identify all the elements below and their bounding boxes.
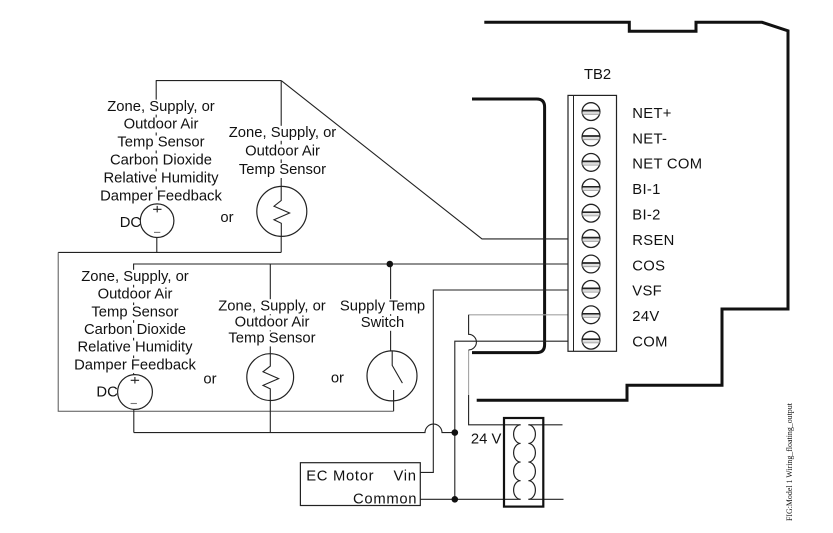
terminal screw 5: [582, 204, 600, 222]
wire: transformer secondary bottom: [528, 498, 563, 500]
terminal screw 9: [582, 306, 600, 324]
terminal screw 7: [582, 255, 600, 273]
svg-text:Damper Feedback: Damper Feedback: [100, 189, 222, 205]
wire: transformer secondary top: [528, 424, 562, 426]
thermistor RT1: [257, 186, 307, 236]
supply temp switch S1: [367, 351, 417, 401]
terminal screw 3: [582, 154, 600, 172]
svg-text:BI-2: BI-2: [632, 208, 660, 224]
terminal labels: [632, 106, 702, 351]
svg-text:TB2: TB2: [584, 67, 611, 83]
DC source V1: [140, 204, 174, 238]
terminal screws: [582, 103, 600, 349]
svg-text:Carbon Dioxide: Carbon Dioxide: [110, 153, 212, 169]
svg-text:Damper Feedback: Damper Feedback: [74, 357, 196, 373]
wire: thermistor RT1 top stem: [280, 81, 282, 187]
wire: DC2 top stem and COS rail: [134, 264, 568, 375]
svg-text:RSEN: RSEN: [632, 233, 674, 249]
DC source V2: [118, 375, 153, 410]
svg-text:Relative Humidity: Relative Humidity: [103, 171, 219, 187]
text: RT2 sensor label: [217, 299, 327, 314]
wire: lower common rail with hop: [134, 424, 455, 433]
wire: switch top stem: [390, 264, 392, 351]
text: top sensor list: [100, 99, 223, 205]
svg-text:COM: COM: [632, 335, 667, 351]
node: transformer common junction: [452, 496, 459, 503]
svg-text:24V: 24V: [632, 309, 659, 325]
text: bottom sensor type list: [80, 270, 190, 285]
svg-text:COS: COS: [632, 258, 665, 274]
wire: 24V terminal to transformer with hop: [469, 315, 521, 425]
svg-text:Zone, Supply, or: Zone, Supply, or: [229, 125, 337, 141]
wire: DC1 top stem: [155, 81, 157, 204]
transformer T1: [504, 418, 543, 507]
wire: top sensor group top rail: [156, 80, 281, 82]
wire: RT2 top stem: [269, 264, 271, 354]
terminal screw 4: [582, 179, 600, 197]
wire: switch bottom stem: [393, 390, 395, 411]
wire: top group common rail: [58, 251, 281, 253]
svg-text:DC: DC: [96, 384, 118, 400]
svg-text:Supply Temp: Supply Temp: [340, 298, 425, 314]
svg-text:Switch: Switch: [361, 315, 405, 331]
terminal screw 8: [582, 281, 600, 299]
enclosure outline (bold controller boundary): [477, 22, 788, 400]
terminal screw 10: [582, 331, 600, 349]
wire: COM terminal riser: [455, 341, 568, 499]
svg-text:Temp Sensor: Temp Sensor: [117, 135, 204, 151]
text: top sensor type list: [106, 100, 216, 115]
svg-text:DC: DC: [120, 215, 142, 231]
svg-text:Zone, Supply, or: Zone, Supply, or: [107, 99, 215, 115]
svg-text:Temp Sensor: Temp Sensor: [239, 162, 326, 178]
wire: DC2 bottom stem: [133, 409, 135, 432]
wire: RT2 bottom stem: [269, 400, 271, 432]
svg-text:Temp Sensor: Temp Sensor: [91, 304, 178, 320]
svg-text:Temp Sensor: Temp Sensor: [228, 331, 315, 347]
svg-text:NET-: NET-: [632, 131, 667, 147]
EC motor box: [300, 463, 420, 508]
terminal screw 2: [582, 128, 600, 146]
svg-text:BI-1: BI-1: [632, 182, 660, 198]
transformer secondary winding: [528, 425, 535, 500]
wire: RT1 bottom stem: [280, 236, 282, 252]
svg-text:or: or: [203, 372, 216, 388]
svg-text:VSF: VSF: [632, 284, 662, 300]
node: COS junction: [387, 261, 394, 268]
svg-text:Zone, Supply, or: Zone, Supply, or: [218, 298, 326, 314]
svg-text:Carbon Dioxide: Carbon Dioxide: [84, 322, 186, 338]
wire: diagonal to RSEN terminal: [281, 81, 568, 239]
wire: EC motor Common to transformer: [420, 498, 520, 500]
wire: left/bottom return path: [58, 252, 393, 411]
terminal block TB2 body: [568, 95, 617, 351]
svg-text:Vin: Vin: [394, 468, 417, 484]
terminal screw 1: [582, 103, 600, 121]
svg-text:or: or: [331, 371, 344, 387]
svg-text:Outdoor Air: Outdoor Air: [245, 144, 320, 160]
text: bottom sensor list: [74, 269, 197, 373]
text: supply temp switch label: [339, 299, 427, 314]
text: RT1 sensor label: [228, 126, 338, 141]
svg-text:Outdoor Air: Outdoor Air: [98, 287, 173, 303]
svg-text:24 V: 24 V: [471, 431, 502, 447]
transformer primary winding: [514, 425, 521, 500]
node: common junction: [452, 429, 459, 436]
svg-text:Outdoor Air: Outdoor Air: [124, 117, 199, 133]
wire: DC1 bottom stem: [156, 237, 158, 252]
svg-text:Relative Humidity: Relative Humidity: [77, 340, 193, 356]
svg-text:NET COM: NET COM: [632, 157, 702, 173]
svg-text:Outdoor Air: Outdoor Air: [235, 315, 310, 331]
text: supply temp switch label: [339, 298, 427, 331]
svg-text:Zone, Supply, or: Zone, Supply, or: [81, 269, 189, 285]
svg-text:EC Motor: EC Motor: [306, 468, 374, 484]
text: RT1 label: [228, 125, 338, 178]
wire: 24V terminal run (light): [469, 315, 568, 395]
svg-text:or: or: [220, 210, 233, 226]
terminal screw 6: [582, 230, 600, 248]
thermistor RT2: [247, 354, 294, 401]
svg-text:Common: Common: [353, 491, 417, 507]
svg-text:NET+: NET+: [632, 106, 671, 122]
wire: VSF to EC motor Vin: [420, 290, 568, 472]
board bracket (bold C-shape around terminal block): [472, 99, 545, 353]
svg-text:FIG:Model 1 Wiring_floating_ou: FIG:Model 1 Wiring_floating_output: [785, 402, 794, 521]
text: RT2 label: [217, 298, 327, 346]
